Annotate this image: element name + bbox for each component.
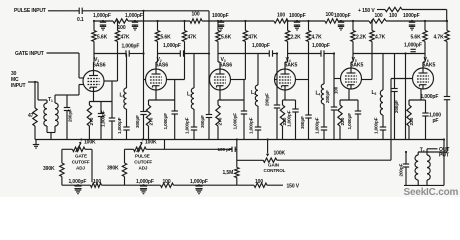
svg-text:100: 100 — [163, 179, 171, 185]
svg-text:1,000pF: 1,000pF — [136, 179, 154, 185]
svg-text:1,000pF: 1,000pF — [404, 42, 422, 48]
svg-text:47K: 47K — [248, 34, 257, 40]
svg-text:ADJ: ADJ — [139, 165, 148, 170]
svg-text:6AS6: 6AS6 — [220, 62, 233, 68]
svg-text:6AK5: 6AK5 — [351, 62, 364, 68]
svg-text:100K: 100K — [145, 140, 157, 146]
svg-text:200pF: 200pF — [394, 100, 399, 113]
svg-text:6AK5: 6AK5 — [423, 62, 436, 68]
svg-text:200pF: 200pF — [264, 93, 269, 106]
svg-text:100K: 100K — [274, 151, 286, 157]
svg-text:2.2K: 2.2K — [291, 34, 302, 40]
svg-text:47: 47 — [28, 113, 34, 119]
svg-text:1,000pF: 1,000pF — [185, 117, 190, 134]
svg-text:1,000pF: 1,000pF — [312, 43, 330, 49]
svg-text:PUT: PUT — [439, 152, 450, 158]
svg-text:1,000pF: 1,000pF — [69, 179, 87, 185]
svg-text:1,000pF: 1,000pF — [315, 117, 320, 134]
svg-text:GAIN: GAIN — [268, 163, 280, 168]
svg-text:1,000pF: 1,000pF — [101, 110, 106, 127]
svg-text:GATE INPUT: GATE INPUT — [15, 51, 44, 57]
svg-text:1000pF: 1000pF — [403, 13, 420, 19]
svg-text:1,000pF: 1,000pF — [249, 117, 254, 134]
svg-text:ADJ: ADJ — [76, 165, 85, 170]
svg-text:4.7K: 4.7K — [312, 34, 323, 40]
svg-text:1,000pF: 1,000pF — [287, 110, 292, 127]
svg-text:390K: 390K — [107, 166, 119, 172]
svg-text:1,000pF: 1,000pF — [190, 179, 208, 185]
svg-text:220: 220 — [409, 117, 415, 125]
svg-text:1,000pF: 1,000pF — [122, 43, 140, 49]
svg-text:1000pF: 1000pF — [212, 13, 229, 19]
svg-text:100: 100 — [326, 12, 334, 18]
svg-text:1,000pF: 1,000pF — [117, 117, 122, 134]
svg-text:PULSE: PULSE — [135, 153, 150, 158]
svg-text:270: 270 — [89, 117, 95, 125]
svg-text:1,000pF: 1,000pF — [93, 13, 111, 19]
svg-text:5.6K: 5.6K — [221, 34, 232, 40]
svg-text:CONTROL: CONTROL — [264, 168, 286, 173]
svg-text:100: 100 — [192, 12, 200, 18]
svg-text:6AK5: 6AK5 — [285, 62, 298, 68]
svg-text:270: 270 — [217, 117, 223, 125]
svg-text:200pF: 200pF — [325, 90, 330, 103]
svg-text:5.6K: 5.6K — [161, 34, 172, 40]
svg-text:200pF: 200pF — [399, 163, 404, 176]
svg-text:100: 100 — [255, 179, 263, 185]
svg-text:220: 220 — [340, 117, 346, 125]
svg-text:100: 100 — [93, 179, 101, 185]
svg-text:300pF: 300pF — [135, 115, 140, 128]
svg-text:47K: 47K — [121, 34, 130, 40]
svg-text:100K: 100K — [84, 140, 96, 146]
svg-text:6AS6: 6AS6 — [156, 62, 169, 68]
svg-text:SeekIC.com: SeekIC.com — [404, 187, 459, 197]
svg-text:4.7K: 4.7K — [434, 34, 445, 40]
svg-text:100: 100 — [277, 13, 285, 19]
svg-text:47K: 47K — [188, 34, 197, 40]
svg-text:1,000pF: 1,000pF — [374, 117, 379, 134]
svg-text:0.1: 0.1 — [77, 17, 84, 23]
svg-text:6AS6: 6AS6 — [93, 62, 106, 68]
svg-text:1,000pF: 1,000pF — [233, 113, 238, 130]
svg-text:270: 270 — [149, 117, 155, 125]
svg-text:100: 100 — [334, 86, 339, 94]
svg-text:100: 100 — [389, 13, 397, 19]
svg-text:1000pF: 1000pF — [334, 13, 351, 19]
svg-text:150 V: 150 V — [287, 184, 300, 190]
svg-text:PULSE INPUT: PULSE INPUT — [14, 8, 46, 14]
svg-text:300pF: 300pF — [200, 115, 205, 128]
svg-text:100: 100 — [375, 13, 383, 19]
svg-text:2.2K: 2.2K — [356, 34, 367, 40]
svg-text:1,000pF: 1,000pF — [163, 43, 181, 49]
svg-text:100: 100 — [118, 25, 126, 31]
svg-text:1,000pF: 1,000pF — [347, 113, 352, 130]
svg-text:1,000pF: 1,000pF — [163, 113, 168, 130]
svg-text:300pF: 300pF — [300, 116, 305, 129]
svg-text:+ 150 V: + 150 V — [358, 8, 375, 14]
svg-text:GATE: GATE — [75, 153, 87, 158]
svg-text:CUTOFF: CUTOFF — [134, 159, 152, 164]
svg-text:1,5M: 1,5M — [223, 170, 234, 176]
svg-text:1,000pF: 1,000pF — [252, 43, 270, 49]
svg-text:1,000pF: 1,000pF — [125, 13, 143, 19]
svg-text:5.6K: 5.6K — [97, 34, 108, 40]
svg-text:1,000pF: 1,000pF — [421, 94, 439, 100]
svg-text:1000pF: 1000pF — [289, 13, 306, 19]
svg-text:100 pF: 100 pF — [218, 147, 232, 152]
svg-text:INPUT: INPUT — [11, 83, 25, 89]
svg-text:CUTOFF: CUTOFF — [72, 159, 90, 164]
svg-text:pF: pF — [433, 118, 439, 124]
svg-text:390K: 390K — [43, 166, 55, 172]
svg-text:4.7K: 4.7K — [375, 34, 386, 40]
svg-text:5.6K: 5.6K — [411, 34, 422, 40]
svg-text:200pF: 200pF — [68, 109, 73, 122]
